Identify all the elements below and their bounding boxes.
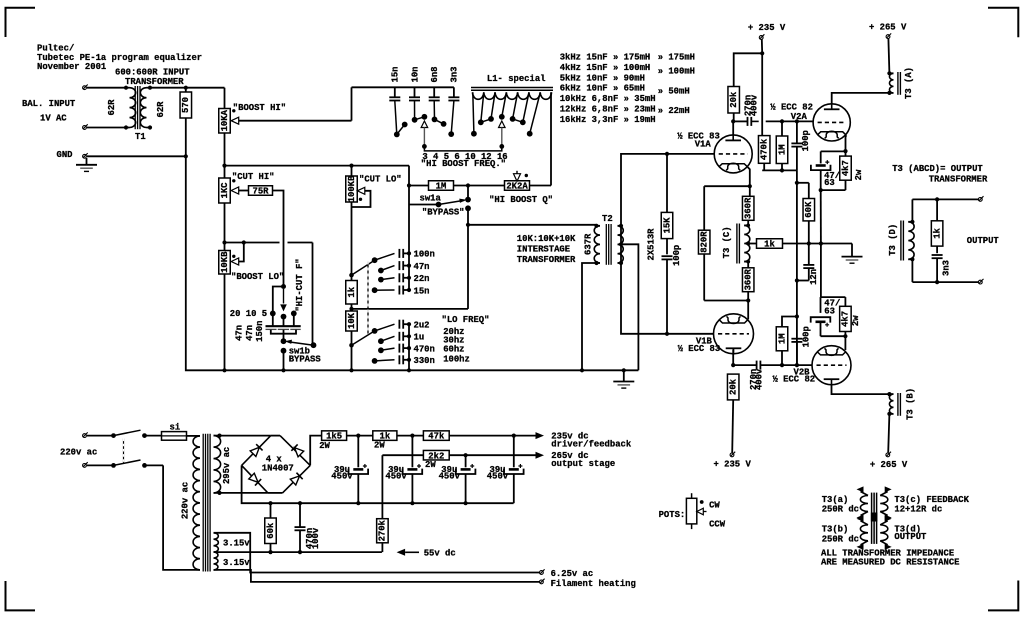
pot 10KA BOOST HI (219, 109, 352, 134)
svg-text:47n: 47n (245, 325, 255, 341)
wire bridge top rail (271, 435, 280, 437)
svg-text:15n: 15n (414, 286, 430, 296)
wire +235V to 20k (734, 53, 763, 86)
border corner bottom-left (6, 581, 36, 610)
junction main vertical at ground rail (222, 368, 226, 372)
svg-text:15n: 15n (391, 67, 401, 83)
svg-text:62R: 62R (107, 99, 117, 116)
capacitor 15n hi-boost (389, 87, 400, 100)
wire L1 tap 3 (473, 92, 474, 133)
svg-text:3n3: 3n3 (942, 260, 952, 276)
svg-text:BYPASS: BYPASS (289, 354, 322, 364)
resistor 1M (409, 181, 505, 192)
svg-text:T1: T1 (135, 132, 146, 142)
svg-text:10K:10K+10K: 10K:10K+10K (517, 234, 576, 244)
svg-text:360R: 360R (744, 197, 754, 219)
junction cap3 top (464, 453, 468, 457)
arrow 235v dc (536, 432, 545, 439)
wire hi-cut caps common bracket (271, 330, 296, 341)
wire 1KC bottom to junction 242.5 (224, 203, 226, 243)
svg-text:CCW: CCW (709, 520, 726, 530)
wire sw1b bypass to ground rail (283, 351, 285, 371)
svg-text:» 50mH: » 50mH (658, 86, 690, 96)
svg-text:360R: 360R (744, 268, 754, 290)
wire 2k2 to 265v arrow (449, 454, 535, 456)
capacitor 10n hi-boost (409, 87, 420, 100)
wire mains neutral to primary bottom (163, 465, 196, 570)
wire rail to 1M vertical (225, 165, 410, 167)
junction selector arm lower pivot (349, 343, 354, 348)
svg-text:220v ac: 220v ac (60, 448, 97, 458)
border corner top-right (988, 8, 1018, 38)
svg-text:½ ECC 82: ½ ECC 82 (770, 102, 813, 112)
switch sw1a (409, 186, 471, 212)
svg-text:T3 (A): T3 (A) (904, 67, 914, 99)
svg-text:12n: 12n (809, 269, 819, 285)
svg-text:6n8: 6n8 (430, 67, 440, 83)
svg-text:V2A: V2A (791, 112, 808, 122)
label 47/63 V2A (824, 171, 840, 188)
svg-text:10K: 10K (347, 312, 357, 329)
capacitor 47/63 V2A (811, 151, 846, 192)
resistor 1k feedback tap (748, 239, 852, 250)
wire 1k bottom to bypass riser (352, 308, 469, 310)
junction cap2 top (410, 434, 414, 438)
svg-text:270k: 270k (378, 519, 388, 541)
wire 10KA wiper riser to cap rail (351, 87, 353, 120)
svg-text:output stage: output stage (551, 459, 615, 469)
svg-text:100hz: 100hz (443, 355, 470, 365)
svg-text:TRANSFORMER: TRANSFORMER (929, 175, 988, 185)
junction T3A top (887, 71, 891, 75)
svg-text:4k7: 4k7 (841, 311, 851, 327)
transformer winding T3 (B) (887, 393, 900, 416)
wire +265V down to T3A (888, 39, 889, 74)
wire heater top to 6.25v terminal (218, 533, 540, 573)
wire cap bank bus upper (408, 166, 410, 290)
resistor 15K (661, 154, 673, 254)
svg-text:100v: 100v (311, 527, 321, 549)
capacitor 47n hi-boost-shelf bank (378, 261, 411, 273)
resistor 20k V1A plate load (728, 87, 740, 122)
resistor 60k bias (265, 503, 277, 554)
junction 60K tap (795, 181, 799, 185)
svg-text:T3 (ABCD)= OUTPUT: T3 (ABCD)= OUTPUT (892, 164, 983, 174)
junction cap1 top (356, 434, 360, 438)
wire 295v top to bridge (220, 435, 271, 437)
svg-text:2W: 2W (319, 441, 330, 451)
junction 10K bottom at ground rail (349, 368, 353, 372)
wire L1 tap 12 (523, 92, 529, 122)
svg-text:220v ac: 220v ac (180, 482, 190, 519)
junction ground line tie (819, 241, 823, 245)
capacitor 39u 450v cap2 (403, 436, 423, 504)
capacitor 6n8 hi-boost (429, 87, 440, 100)
wire 2K2A right to L1 (550, 92, 552, 185)
wire output bottom (912, 259, 978, 284)
svg-text:"CUT LO": "CUT LO" (359, 175, 402, 185)
svg-text:3n3: 3n3 (450, 67, 460, 83)
junction cap4 top (512, 434, 516, 438)
wire T3B to +265V terminal (888, 414, 889, 453)
wire L1 tap 10 (513, 92, 518, 119)
label 270n 400v A (744, 94, 760, 116)
svg-text:ARE MEASURED DC RESISTANCE: ARE MEASURED DC RESISTANCE (821, 558, 959, 568)
svg-text:POTS:: POTS: (659, 510, 686, 520)
svg-text:12kHz 6,8nF » 23mH: 12kHz 6,8nF » 23mH (560, 105, 656, 115)
svg-text:November 2001: November 2001 (37, 62, 106, 72)
terminal output cold (978, 279, 983, 284)
svg-text:100p: 100p (802, 326, 812, 347)
svg-text:20k: 20k (729, 91, 739, 108)
terminal GND (83, 153, 88, 158)
arrow 55v dc (397, 549, 419, 556)
mechanical link mains switch dashed (123, 439, 125, 463)
capacitor 39u 450v cap1 (349, 436, 369, 504)
wire V2A plate to T3A (832, 93, 890, 104)
svg-text:sw1a: sw1a (420, 193, 442, 203)
svg-text:CW: CW (709, 501, 720, 511)
junction sw1b at ground rail (281, 368, 285, 372)
switch hi-cut contact 5 (291, 311, 297, 317)
wire heater bottom to filament terminal (218, 570, 540, 582)
wire V2B cathode top rail (821, 296, 846, 298)
switch hi-cut selected contact wire (273, 287, 284, 314)
svg-text:½ ECC 83: ½ ECC 83 (678, 344, 721, 354)
wire cap bank bus lower (408, 324, 410, 370)
wire main vertical to 10KB (224, 243, 226, 251)
capacitor 100p interstage (662, 256, 673, 334)
svg-text:637R: 637R (583, 233, 593, 255)
junction cathode V1B node (746, 298, 750, 302)
svg-text:400v: 400v (750, 94, 760, 116)
wire T2 right top to V1A grid (620, 226, 622, 263)
svg-text:"BYPASS": "BYPASS" (422, 208, 465, 218)
svg-text:15K: 15K (662, 217, 672, 234)
wire bias rail V2A (762, 168, 797, 172)
junction selector arm upper pivot (349, 273, 354, 278)
svg-text:2X513R: 2X513R (646, 228, 656, 261)
resistor 2k2 (382, 450, 449, 461)
wire 1k5 to 1k (347, 435, 373, 437)
svg-text:1k: 1k (932, 227, 942, 238)
svg-text:1u: 1u (414, 333, 425, 343)
svg-text:T3 (D): T3 (D) (888, 224, 898, 256)
svg-text:T3 (C): T3 (C) (722, 226, 732, 258)
svg-text:» 22mH: » 22mH (658, 106, 690, 116)
svg-text:T3(c) FEEDBACK: T3(c) FEEDBACK (894, 495, 969, 505)
svg-text:100p: 100p (801, 130, 811, 151)
wire 10KB bottom to ground rail (224, 274, 226, 370)
transformer winding T3 (D) (901, 199, 915, 261)
capacitor 47/63 V2B (811, 297, 831, 336)
junction sw1b contact in (281, 338, 287, 344)
wire V2A cathode down (843, 135, 847, 153)
transformer winding T3 (C) (737, 224, 750, 264)
svg-text:450v: 450v (385, 472, 407, 482)
svg-text:10n: 10n (410, 67, 420, 83)
terminal +235V upper (759, 34, 764, 39)
junction T2 ground at rail (580, 368, 584, 372)
svg-text:20k: 20k (729, 378, 739, 395)
svg-text:6.25v ac: 6.25v ac (551, 569, 594, 579)
wire T2 left bottom to ground rail (582, 263, 597, 370)
resistor 570 (180, 88, 192, 157)
svg-text:"BOOST LO": "BOOST LO" (231, 272, 284, 282)
capacitor 39u 450v cap3 (456, 455, 476, 503)
wire GND to 570 bottom (87, 155, 186, 157)
svg-text:+ 235 V: + 235 V (748, 23, 786, 33)
wire 75R to hi-cut switch (273, 191, 284, 287)
wire horizontal 242.5 to sw1b riser (225, 243, 313, 346)
fuse si (162, 432, 194, 441)
capacitor 100n hi-boost-shelf bank (372, 249, 411, 263)
switch sw1b arm (285, 340, 317, 349)
tube V2B half ECC 82 (812, 346, 851, 385)
svg-text:63: 63 (824, 306, 835, 316)
resistor 360R upper (742, 186, 754, 225)
svg-text:TRANSFORMER: TRANSFORMER (517, 255, 576, 265)
wire 55v rail (218, 551, 382, 553)
svg-text:47k: 47k (428, 432, 445, 442)
svg-text:16kHz 3,3nF » 19mH: 16kHz 3,3nF » 19mH (560, 115, 656, 125)
wire V2B plate to T3B (832, 385, 890, 394)
table hi-boost frequency values (560, 53, 656, 125)
svg-text:L1- special: L1- special (487, 74, 546, 84)
svg-text:250R dc: 250R dc (822, 505, 859, 515)
svg-text:295v ac: 295v ac (222, 447, 232, 484)
svg-text:75R: 75R (253, 187, 270, 197)
svg-text:100n: 100n (414, 250, 435, 260)
svg-text:3.15v: 3.15v (223, 558, 250, 568)
svg-text:470k: 470k (760, 138, 770, 160)
svg-text:3kHz 15nF » 175mH: 3kHz 15nF » 175mH (560, 53, 651, 63)
junction hi-cut pole (281, 284, 286, 289)
svg-text:570: 570 (181, 97, 191, 113)
ground symbol at GND input (76, 158, 97, 171)
svg-text:62R: 62R (156, 101, 166, 118)
capacitor 270n coupling B (733, 361, 812, 370)
svg-text:5kHz 10nF » 90mH: 5kHz 10nF » 90mH (560, 73, 645, 83)
switch hi-cut contact 20 (270, 311, 276, 317)
capacitor 2u2 lo-freq bank (372, 320, 411, 334)
terminal +235V lower (730, 452, 735, 457)
resistor 1M V2B (776, 317, 797, 368)
resistor 1k eq (346, 281, 358, 305)
svg-text:½ ECC 82: ½ ECC 82 (773, 375, 816, 385)
switch hi-boost contacts caps side (394, 114, 454, 137)
wire 47k to 235v arrow (449, 435, 535, 437)
pot 1KC CUT HI (219, 178, 249, 203)
svg-text:250R dc: 250R dc (822, 534, 859, 544)
power transformer primary (193, 436, 200, 570)
svg-text:"LO FREQ": "LO FREQ" (442, 315, 490, 325)
rectifier bridge 4 x 1N4007 (242, 436, 311, 493)
wire input hot to T1 (87, 87, 126, 89)
svg-text:OUTPUT: OUTPUT (894, 532, 927, 542)
junction 10KB wiper tie (242, 240, 246, 244)
resistor 270k bias (377, 455, 389, 552)
junction T1 top / 570 (184, 86, 188, 90)
wire L1 tap 6 (502, 92, 507, 117)
wire cap 3n3 to contact 16 (451, 101, 454, 135)
terminal 6.25v ac (540, 569, 545, 574)
wire V1A plate to 20k junction (732, 121, 734, 135)
junction V1A plate node (731, 119, 735, 123)
pot 100KB CUT LO (346, 166, 371, 207)
capacitor hi-cut bank (266, 316, 301, 330)
capacitor 470n bias (295, 503, 306, 554)
resistor 470k (758, 136, 770, 171)
svg-text:» 175mH: » 175mH (658, 53, 695, 63)
svg-text:"HI BOOST FREQ.": "HI BOOST FREQ." (421, 159, 506, 169)
svg-text:T3(b): T3(b) (822, 524, 849, 534)
svg-text:T3(a): T3(a) (822, 495, 849, 505)
svg-text:3.15v: 3.15v (223, 538, 250, 548)
wire cap 10n to contact 5 (414, 101, 416, 120)
wire V1B plate down (731, 350, 735, 368)
wire bridge minus to bus (242, 465, 514, 503)
transformer T2 (594, 224, 623, 265)
resistor 820R (698, 230, 747, 300)
svg-text:"BOOST HI": "BOOST HI" (233, 103, 286, 113)
svg-text:"HI BOOST Q": "HI BOOST Q" (489, 195, 553, 205)
resistor 1k5 (322, 431, 347, 441)
wire to 60K (797, 182, 809, 184)
wire main vertical down to 10KA (224, 88, 226, 109)
wire cap 15n to contact 3 (395, 101, 397, 135)
wire V1A cathode down (704, 167, 752, 230)
svg-text:60k: 60k (266, 522, 276, 539)
svg-text:100KB: 100KB (347, 175, 357, 202)
resistor 4k7 V2A (821, 151, 852, 190)
capacitor 3n3 (932, 255, 943, 282)
terminal +265V upper (886, 33, 891, 38)
junction V1B grid divider (665, 332, 669, 336)
capacitor 100p V2B (791, 339, 802, 368)
svg-text:150n: 150n (255, 321, 265, 342)
wire ground stub (851, 244, 853, 257)
junction GND wire (184, 154, 188, 158)
mechanical link dashed selector (367, 262, 369, 335)
wire +235V down (760, 40, 764, 136)
svg-text:1V AC: 1V AC (40, 114, 67, 124)
wire V1B cathode riser (747, 301, 749, 320)
wire cap rail top (352, 86, 454, 88)
junction sw1b bypass contact (281, 348, 287, 354)
junction 1M right node (466, 183, 470, 187)
tube V2A half ECC 82 (813, 104, 850, 141)
pot 2K2A HI BOOST Q (505, 171, 552, 192)
border corner top-left (6, 8, 36, 37)
svg-text:1N4007: 1N4007 (262, 464, 294, 474)
capacitor 3n3 hi-boost (448, 87, 459, 100)
svg-text:400v: 400v (755, 368, 765, 390)
junction 100p V2A top (795, 119, 799, 123)
transformer T1 (124, 86, 152, 130)
switch hi-boost pole arrow left (421, 121, 428, 149)
junction bus dots (268, 501, 467, 505)
svg-text:2w: 2w (851, 315, 861, 326)
svg-text:450v: 450v (487, 472, 509, 482)
wire ground node to V2B cathode network (820, 244, 822, 298)
wire bridge plus up (310, 436, 321, 466)
svg-text:OUTPUT: OUTPUT (967, 236, 1000, 246)
switch arm lo-freq lower (352, 331, 375, 345)
svg-text:100p: 100p (672, 245, 682, 266)
ground symbol main rail (613, 368, 634, 388)
svg-text:+ 235 V: + 235 V (714, 460, 752, 470)
wire cathode network to ground node (820, 190, 822, 243)
switch mains hot (87, 430, 162, 438)
svg-text:10kHz 6,8nF » 35mH: 10kHz 6,8nF » 35mH (560, 94, 656, 104)
svg-text:60hz: 60hz (443, 344, 464, 354)
wire bridge bottom rail (268, 492, 283, 494)
junction V1A grid divider (665, 152, 669, 156)
svg-text:BAL. INPUT: BAL. INPUT (22, 99, 76, 109)
resistor 1k output (931, 199, 943, 253)
wire long bias vertical (796, 170, 798, 365)
border corner bottom-right (988, 581, 1018, 611)
wire bypass node down and to T2 (466, 208, 597, 309)
switch hi-boost contacts L1 side (471, 114, 533, 137)
transformer T3 legend symbol (857, 486, 892, 550)
pot 10KB BOOST LO (219, 243, 244, 275)
switch hi-cut pole arrow (280, 289, 287, 311)
svg-text:20 10 5: 20 10 5 (230, 309, 267, 319)
svg-text:T3 (B): T3 (B) (906, 388, 916, 420)
resistor 75R (249, 186, 273, 196)
capacitor 1u lo-freq bank (378, 332, 411, 344)
wire ground rail left vertical (186, 156, 639, 370)
svg-text:Filament heating: Filament heating (551, 579, 636, 589)
svg-text:T2: T2 (602, 214, 613, 224)
arrow 265v dc (536, 452, 545, 459)
svg-text:10KB: 10KB (220, 251, 230, 273)
svg-text:1M: 1M (777, 333, 787, 344)
junction 1M left (407, 183, 411, 187)
terminal input hot (83, 85, 88, 90)
pot symbol legend (686, 493, 706, 529)
wire cap 6n8 to contact 10 (433, 101, 435, 120)
junction T3B top (887, 392, 891, 396)
wire 295v bottom to bridge (220, 492, 268, 494)
svg-text:820R: 820R (700, 231, 710, 253)
power transformer core (203, 434, 210, 572)
resistor 10K eq (346, 304, 358, 370)
junction main vertical rail (222, 164, 226, 168)
resistor 360R lower (742, 262, 754, 301)
terminal mains hot (83, 432, 88, 437)
capacitor 15n hi-boost-shelf bank (372, 286, 411, 295)
capacitor 470n lo-freq bank (378, 344, 411, 354)
svg-text:450v: 450v (439, 472, 461, 482)
wire input cold to T1 (87, 127, 126, 129)
svg-text:55v dc: 55v dc (424, 548, 456, 558)
svg-text:47n: 47n (235, 325, 245, 341)
svg-text:driver/feedback: driver/feedback (551, 439, 632, 449)
switch mains neutral (87, 460, 163, 468)
wire hi-boost pole bus (424, 146, 501, 151)
inductor L1 special (471, 88, 553, 100)
wire output top (912, 197, 978, 201)
svg-text:1k: 1k (347, 286, 357, 297)
terminal input cold (83, 124, 88, 129)
power transformer 3.15v winding 1 (214, 533, 219, 552)
wire L1 tap 5 (491, 92, 495, 119)
svg-text:330n: 330n (414, 356, 435, 366)
wire T1 top to main vertical (150, 87, 225, 89)
